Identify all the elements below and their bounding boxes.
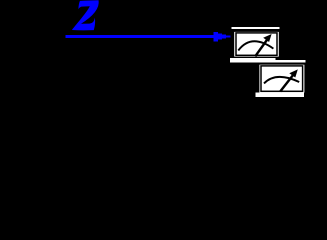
meter M1 bottom bar (230, 58, 276, 62)
wire: blue arrow from Z to meters (65, 32, 230, 42)
label Z (impedance) (72, 0, 99, 30)
meter M2 (255, 60, 305, 97)
meter M2 top bar (256, 60, 305, 63)
meter M1 top bar (232, 27, 280, 29)
meter M1 scale arc (238, 41, 273, 50)
meter M2 scale arc (264, 77, 299, 84)
meter M2 needle (280, 75, 293, 92)
meter M1 needle (255, 40, 267, 56)
meter M1 face box (234, 32, 279, 57)
meter M2 bottom bar (255, 92, 304, 97)
meter M2 face box (259, 65, 304, 93)
meter M1 (230, 27, 280, 62)
